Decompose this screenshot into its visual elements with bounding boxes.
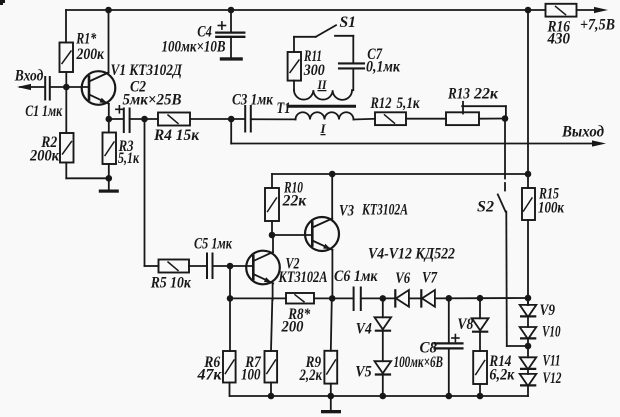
svg-text:+7,5В: +7,5В bbox=[580, 17, 615, 34]
svg-text:V3: V3 bbox=[339, 203, 354, 220]
svg-text:Т1: Т1 bbox=[277, 100, 291, 117]
svg-text:V11: V11 bbox=[543, 353, 561, 370]
svg-text:S2: S2 bbox=[477, 199, 494, 216]
svg-text:V8: V8 bbox=[457, 316, 473, 333]
svg-text:100мк×6В: 100мк×6В bbox=[394, 354, 444, 371]
svg-text:2,2к: 2,2к bbox=[299, 367, 323, 384]
svg-text:0,1мк: 0,1мк bbox=[366, 59, 401, 76]
svg-text:С5 1мк: С5 1мк bbox=[194, 236, 233, 253]
svg-text:5мк×25В: 5мк×25В bbox=[123, 91, 182, 108]
svg-text:V5: V5 bbox=[355, 364, 372, 381]
svg-text:300: 300 bbox=[303, 62, 325, 79]
svg-text:430: 430 bbox=[547, 31, 571, 48]
svg-text:S1: S1 bbox=[340, 14, 357, 31]
svg-text:100к: 100к bbox=[538, 200, 565, 217]
svg-text:22к: 22к bbox=[473, 86, 499, 103]
svg-text:5,1к: 5,1к bbox=[118, 150, 140, 167]
svg-text:V4-V12 КД522: V4-V12 КД522 bbox=[368, 246, 455, 263]
svg-text:С3 1мк: С3 1мк bbox=[232, 92, 274, 109]
svg-text:100мк×10В: 100мк×10В bbox=[162, 39, 226, 56]
svg-text:R1*: R1* bbox=[76, 31, 97, 48]
svg-text:II: II bbox=[317, 78, 328, 92]
svg-text:КТ3102А: КТ3102А bbox=[278, 269, 328, 286]
svg-text:С1 1мк: С1 1мк bbox=[25, 103, 63, 120]
svg-text:100: 100 bbox=[241, 367, 261, 384]
svg-text:6,2к: 6,2к bbox=[489, 367, 515, 384]
svg-text:V7: V7 bbox=[422, 270, 438, 287]
svg-text:22к: 22к bbox=[282, 193, 308, 210]
svg-text:Вход: Вход bbox=[14, 68, 44, 85]
svg-text:С6 1мк: С6 1мк bbox=[334, 268, 379, 285]
svg-text:V4: V4 bbox=[356, 321, 372, 338]
svg-text:200к: 200к bbox=[76, 46, 105, 63]
svg-text:R12: R12 bbox=[370, 95, 392, 112]
svg-text:V12: V12 bbox=[543, 370, 562, 387]
svg-text:КТ3102А: КТ3102А bbox=[361, 202, 408, 219]
svg-text:V9: V9 bbox=[540, 302, 556, 319]
svg-text:5,1к: 5,1к bbox=[397, 95, 421, 112]
svg-text:R5 10к: R5 10к bbox=[150, 275, 192, 292]
svg-text:V10: V10 bbox=[542, 324, 561, 341]
svg-text:R13: R13 bbox=[447, 86, 470, 103]
svg-text:200: 200 bbox=[281, 319, 304, 336]
svg-text:V1 КТ3102Д: V1 КТ3102Д bbox=[111, 62, 184, 79]
svg-text:200к: 200к bbox=[29, 148, 60, 165]
svg-text:Выход: Выход bbox=[561, 124, 604, 141]
svg-text:V6: V6 bbox=[395, 270, 410, 287]
svg-text:I: I bbox=[319, 122, 326, 136]
svg-text:47к: 47к bbox=[196, 367, 222, 384]
svg-text:R4 15к: R4 15к bbox=[153, 127, 200, 144]
